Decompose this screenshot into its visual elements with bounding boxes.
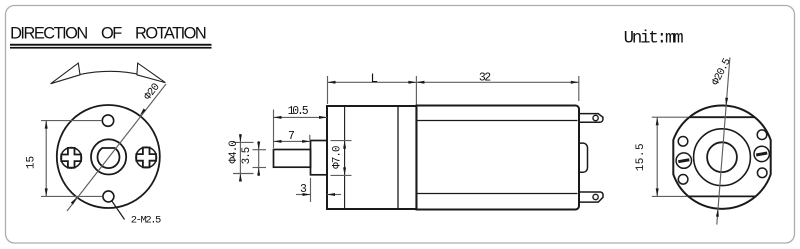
svg-text:Φ7.0: Φ7.0 — [332, 146, 344, 169]
gearbox front plate line — [344, 106, 346, 209]
front view gearbox outer circle — [57, 105, 160, 208]
rotation arrowhead right — [137, 63, 165, 83]
svg-text:7: 7 — [288, 130, 295, 143]
dim phi4 tick top — [233, 141, 254, 143]
motor rear bump — [579, 143, 588, 172]
rear top flat chord — [689, 116, 754, 118]
front D-shaft circle with flat top — [98, 148, 120, 168]
dim 15 arrow down — [45, 188, 48, 196]
dim phi20.5 arrow bottom — [716, 209, 719, 217]
motor can bottom line — [417, 193, 578, 195]
svg-text:3: 3 — [300, 183, 307, 196]
rear center boss — [707, 142, 737, 172]
rear terminal left slot — [678, 158, 690, 163]
front bottom mounting hole — [103, 191, 114, 202]
dim L line — [328, 81, 417, 83]
motor terminal tab top — [579, 114, 603, 123]
dim 15 arrow up — [45, 121, 48, 129]
svg-text:Unit:mm: Unit:mm — [624, 30, 684, 49]
svg-text:32: 32 — [479, 72, 491, 85]
rear view outer can outline — [673, 106, 770, 209]
front screw left circle — [61, 148, 82, 169]
rear terminal right slot — [756, 152, 768, 157]
svg-text:2-M2.5: 2-M2.5 — [131, 214, 161, 226]
svg-text:3.5: 3.5 — [241, 147, 253, 164]
dim 32 line — [416, 81, 578, 83]
dim phi20.5 line — [717, 58, 730, 225]
terminal tab bottom hole — [593, 194, 598, 199]
side view shaft — [274, 150, 311, 168]
dim L extension left — [327, 76, 329, 104]
dim 10.5 line — [274, 116, 328, 118]
svg-text:Φ20: Φ20 — [142, 82, 162, 103]
svg-text:10.5: 10.5 — [288, 105, 309, 118]
rear bearing ring — [694, 129, 751, 186]
svg-text:DIRECTION OF ROTATION: DIRECTION OF ROTATION — [10, 25, 206, 43]
front screw right cross — [136, 148, 156, 168]
dim 3.5 tick top — [253, 149, 267, 151]
rear bottom flat chord — [688, 195, 755, 197]
dim 10.5 extension — [273, 110, 275, 149]
svg-text:L: L — [371, 72, 379, 86]
dim phi4 line — [239, 134, 241, 182]
side view motor body — [417, 106, 580, 210]
front screw left cross — [61, 148, 81, 168]
rear hole upper-right — [757, 130, 767, 140]
motor can top line — [417, 120, 578, 122]
rear hole lower-right — [757, 168, 767, 178]
dim 3 line right tail — [327, 194, 341, 196]
svg-text:Φ4.0: Φ4.0 — [228, 141, 240, 164]
dim 7 line — [274, 140, 311, 142]
rear terminal right circle — [754, 146, 769, 161]
front screw right circle — [136, 147, 157, 168]
svg-text:15: 15 — [25, 156, 37, 169]
side view shaft boss — [311, 141, 328, 175]
dim phi20 arrow upper — [140, 109, 146, 116]
rear hole upper-left — [678, 137, 688, 147]
gearbox rear plate line — [397, 106, 399, 209]
rear hole lower-left — [678, 175, 688, 185]
dim 15.5 extension bottom — [652, 195, 687, 197]
curved rotation arrow arc — [51, 71, 166, 83]
motor terminal tab bottom — [579, 192, 603, 202]
front top mounting hole — [102, 115, 113, 126]
rotation arrowhead left — [51, 63, 80, 84]
terminal tab top hole — [593, 115, 598, 120]
dim phi20.5 arrow top — [725, 98, 728, 106]
dim phi20 diagonal line — [67, 84, 166, 211]
title double underline — [10, 44, 212, 46]
dim 3.5 line — [258, 141, 260, 176]
dim 15.5 extension top — [652, 116, 688, 118]
dim L / 32 shared extension — [415, 76, 417, 105]
side view gearbox body — [327, 106, 416, 209]
dim 15.5 line — [656, 117, 658, 196]
svg-text:15.5: 15.5 — [635, 143, 647, 171]
dim 15 extension line top — [41, 120, 102, 122]
dim 3 extension — [310, 178, 312, 202]
leader line 2-M2.5 — [112, 201, 125, 220]
svg-text:Φ20.5: Φ20.5 — [710, 57, 734, 88]
dim phi7 tick bottom — [331, 174, 352, 176]
front hub outer circle — [91, 139, 126, 174]
rear terminal left circle — [676, 153, 691, 168]
dim phi20 arrow lower — [71, 197, 77, 204]
dim phi4 tick bottom — [233, 173, 254, 175]
dim phi7 tick top — [331, 140, 352, 142]
dim 3 line left tail — [296, 194, 311, 196]
dim 15 extension line bottom — [41, 195, 103, 197]
dim 32 extension right — [578, 76, 580, 101]
dim 3.5 tick bottom — [253, 167, 267, 169]
dim 7 extension — [309, 135, 311, 140]
dim 15 dimension line — [45, 121, 47, 197]
